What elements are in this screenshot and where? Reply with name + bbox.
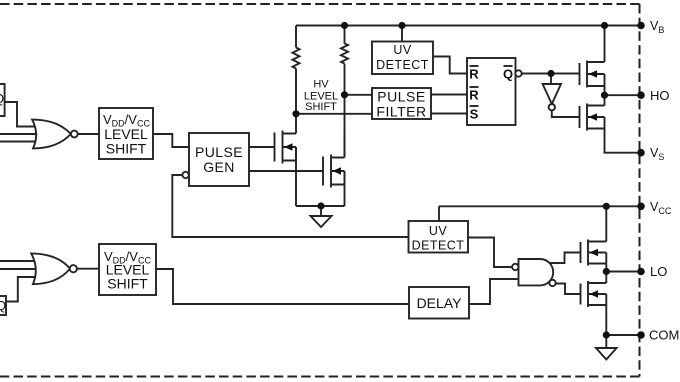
NOR gate G2 — [31, 253, 70, 284]
wire LO upper FET source to LO node — [605, 253, 607, 272]
resistor R1 — [293, 48, 300, 69]
svg-text:GEN: GEN — [203, 159, 235, 175]
transistor Q4 HO lower — [580, 104, 605, 131]
node VB rail junction HO FET — [601, 22, 608, 29]
wire pulse filter to latch S pin — [431, 113, 467, 115]
transistor M1 HV level shift — [275, 114, 297, 164]
node VB rail junction UV1 — [398, 22, 405, 29]
wire NOR2 input 2 — [0, 268, 45, 270]
node LO junction — [603, 268, 610, 275]
level shifter LS1 box — [99, 108, 153, 159]
wire VB rail — [296, 25, 641, 27]
wire NOR1 input 3 — [0, 141, 45, 143]
svg-text:SHIFT: SHIFT — [106, 141, 147, 157]
svg-text:SHIFT: SHIFT — [305, 101, 337, 113]
wire R1 bottom to node A — [295, 69, 297, 114]
pulse generator box — [189, 133, 249, 186]
wire LO lower FET drain — [605, 272, 607, 284]
flip-flop Q1 box (cut off) — [0, 84, 5, 116]
svg-text:DELAY: DELAY — [417, 295, 463, 311]
wire UV detect 1 top to VB rail — [401, 26, 403, 42]
wire pulse gen enable to UV detect 2 — [172, 175, 408, 237]
svg-text:UV: UV — [429, 224, 447, 238]
wire NOR1 output to level shift 1 — [78, 133, 99, 135]
wire Q1 box to NOR1 top input — [5, 102, 42, 127]
wire R2 branch top — [344, 26, 346, 44]
svg-text:FILTER: FILTER — [376, 104, 426, 120]
SR latch U1 — [467, 58, 516, 125]
IC package dashed boundary bottom — [0, 376, 640, 378]
wire pulse gen output 1 to M1 gate — [249, 146, 275, 148]
UV detect 2 box — [409, 221, 469, 253]
svg-text:PULSE: PULSE — [195, 144, 243, 160]
wire LO lower FET source to COM — [605, 294, 607, 335]
svg-text:Q: Q — [503, 67, 513, 82]
NAND gate G3 — [519, 259, 554, 285]
svg-text:HV: HV — [313, 79, 329, 91]
wire level shift 1 to pulse gen input — [153, 134, 189, 147]
wire HO node to HO terminal — [605, 94, 642, 96]
svg-text:SHIFT: SHIFT — [107, 276, 148, 292]
wire node A to pulse filter lower input — [296, 113, 372, 115]
wire M2 source to ground rail — [344, 171, 346, 206]
svg-text:R: R — [469, 88, 479, 103]
inverter U2 — [543, 84, 561, 104]
wire ground rail — [296, 205, 345, 207]
svg-text:DETECT: DETECT — [376, 58, 429, 72]
node latch output junction — [547, 70, 554, 77]
wire HO upper FET drain to VB rail — [604, 26, 606, 63]
UV detect 1 box — [372, 42, 433, 75]
wire HO upper FET source to HO node — [604, 74, 606, 95]
wire UV detect 1 output to latch R pin 1 — [433, 57, 467, 74]
transistor Q6 LO lower — [581, 281, 607, 307]
node VCC terminal — [637, 203, 645, 211]
pulse gen enable bubble — [182, 172, 188, 178]
wire inverter output to lower HO FET gate — [552, 110, 580, 117]
node B junction — [341, 91, 348, 98]
svg-text:COM: COM — [649, 328, 679, 343]
wire ground stem — [320, 206, 322, 216]
node VCC junction — [603, 203, 610, 210]
wire COM ground stem — [605, 335, 607, 348]
wire LO upper FET drain to VCC — [605, 206, 607, 241]
wire HO lower FET drain — [604, 95, 606, 105]
NAND output bubble — [549, 280, 555, 286]
svg-text:Q: Q — [0, 91, 4, 106]
transistor M2 HV level shift — [323, 134, 345, 188]
node HO terminal — [637, 91, 645, 99]
level shifter LS2 box — [99, 244, 156, 295]
wire pulse filter to latch R pin 2 — [431, 94, 467, 96]
wire R1 branch top — [295, 26, 297, 48]
svg-text:S: S — [470, 107, 479, 122]
node LO terminal — [637, 268, 645, 276]
wire Q2 box to NOR2 bottom input — [6, 277, 42, 302]
transistor Q5 LO upper — [581, 240, 607, 266]
svg-text:Q: Q — [0, 298, 6, 313]
wire NOR1 input 2 — [0, 133, 45, 135]
node A junction — [292, 110, 299, 117]
ground COM symbol — [596, 348, 617, 360]
wire NAND upper output to LO upper FET gate — [550, 253, 581, 264]
IC package dashed boundary right — [639, 4, 641, 377]
IC package dashed boundary top — [0, 3, 640, 5]
wire node B to pulse filter upper input — [345, 94, 373, 96]
wire pulse gen output 2 to M2 gate — [249, 170, 323, 172]
pulse filter box — [372, 88, 431, 119]
wire R2 bottom to node B — [344, 64, 346, 95]
svg-text:HO: HO — [650, 88, 670, 103]
NAND input bubble — [512, 264, 518, 270]
wire UV detect 2 output to NAND input 1 — [468, 238, 512, 268]
wire NOR2 output to level shift 2 — [77, 268, 99, 270]
ground VSS symbol — [311, 216, 332, 227]
wire latch Q output to HMOS gate — [522, 73, 580, 75]
svg-text:UV: UV — [393, 43, 411, 57]
wire UV detect 2 top to VCC rail — [438, 206, 440, 221]
wire HO lower FET source to VS — [605, 117, 642, 153]
node ground rail junction — [317, 202, 324, 209]
wire delay output to NAND input 2 — [469, 279, 519, 304]
wire M1 source to ground rail — [295, 147, 297, 206]
node VS terminal — [637, 149, 645, 157]
node VB terminal — [637, 22, 645, 30]
svg-text:PULSE: PULSE — [377, 89, 425, 105]
delay box — [409, 287, 469, 319]
wire M2 drain riser — [344, 95, 346, 158]
flip-flop Q2 box (cut off) — [0, 296, 6, 315]
wire inverter branch — [550, 74, 552, 85]
svg-text:R: R — [469, 67, 479, 82]
transistor Q3 HO upper — [580, 61, 605, 88]
node VB rail junction R2 — [341, 22, 348, 29]
wire COM node to COM terminal — [606, 334, 641, 336]
NOR gate G1 — [32, 120, 71, 149]
resistor R2 — [341, 44, 348, 64]
wire NOR2 input 1 — [0, 260, 45, 262]
node HO junction — [601, 92, 608, 99]
wire VCC rail — [439, 205, 641, 207]
wire level shift 2 to delay input — [156, 269, 409, 304]
latch Q output bubble — [515, 70, 521, 76]
node COM terminal — [637, 331, 645, 339]
wire LO node to LO terminal — [606, 271, 641, 273]
node COM junction — [603, 331, 610, 338]
svg-text:LO: LO — [650, 264, 667, 279]
svg-text:DETECT: DETECT — [412, 239, 465, 253]
wire NAND lower output to LO lower FET gate — [556, 284, 581, 295]
